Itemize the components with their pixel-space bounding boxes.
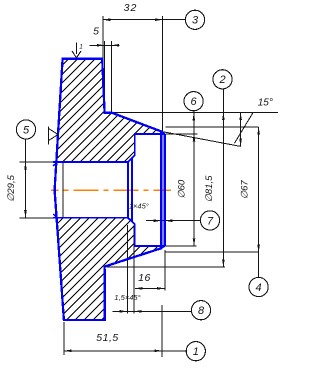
- svg-text:4: 4: [256, 282, 262, 294]
- svg-text:∅29,5: ∅29,5: [6, 174, 17, 201]
- svg-text:∅81,5: ∅81,5: [204, 175, 215, 202]
- svg-text:1: 1: [193, 346, 199, 358]
- svg-text:1×45°: 1×45°: [129, 202, 149, 211]
- svg-text:7: 7: [207, 215, 214, 227]
- svg-text:15°: 15°: [258, 98, 273, 109]
- svg-text:2: 2: [218, 74, 225, 86]
- svg-text:32: 32: [124, 2, 138, 14]
- svg-text:3: 3: [192, 15, 199, 27]
- svg-text:5: 5: [93, 26, 99, 38]
- svg-text:1,5×45°: 1,5×45°: [114, 293, 140, 302]
- svg-text:8: 8: [198, 305, 205, 317]
- svg-text:∅67: ∅67: [240, 180, 251, 200]
- svg-text:∅60: ∅60: [177, 179, 188, 199]
- svg-text:16: 16: [138, 272, 151, 284]
- svg-text:51,5: 51,5: [96, 332, 118, 344]
- svg-text:6: 6: [191, 96, 198, 108]
- svg-text:1: 1: [79, 44, 83, 51]
- svg-text:5: 5: [23, 124, 30, 136]
